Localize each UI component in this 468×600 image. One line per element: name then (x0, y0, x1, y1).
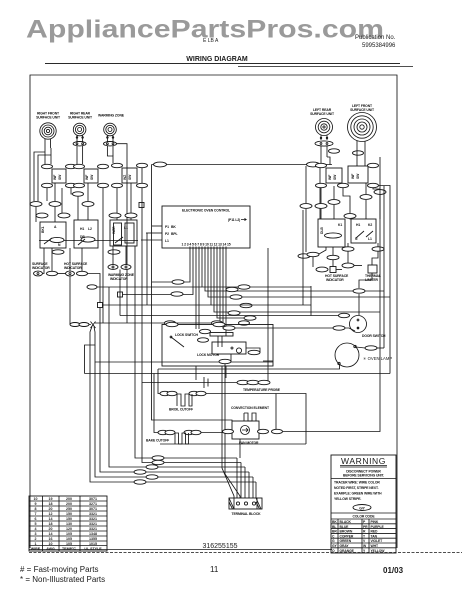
svg-text:1015: 1015 (89, 542, 97, 546)
svg-text:3321: 3321 (89, 512, 97, 516)
wire right bundle x390 (379, 186, 390, 374)
svg-text:✳ OVEN LAMP: ✳ OVEN LAMP (363, 356, 392, 361)
wire y444 horizontal (160, 443, 306, 445)
node oval 334-202 (328, 200, 340, 205)
node oval x303 low (298, 254, 310, 258)
junction crossing X (91, 322, 96, 329)
node oval S5 out (360, 195, 372, 200)
svg-text:105: 105 (66, 532, 72, 536)
wire coil3 to S3 (107, 146, 113, 163)
svg-text:6: 6 (35, 517, 37, 521)
wire thermal limiter to door switch (359, 273, 372, 288)
wire EOC drop y291 door feed (205, 248, 384, 291)
svg-text:SW: SW (90, 174, 94, 180)
wire EOC left pin P2 (146, 232, 162, 234)
lock box top edge ovals (166, 322, 178, 326)
svg-text:DOOR SWITCH: DOOR SWITCH (362, 334, 386, 338)
wire door bottom (349, 328, 355, 331)
wire EOC drop y305 (103, 248, 212, 305)
svg-text:2: 2 (35, 537, 37, 541)
svg-text:INDICATOR: INDICATOR (32, 266, 50, 270)
svg-text:PINK: PINK (371, 520, 379, 524)
wire S3 bottom to K3 (130, 183, 132, 220)
svg-text:SW: SW (356, 173, 360, 179)
svg-text:BAKE CUTOFF: BAKE CUTOFF (146, 439, 169, 443)
svg-text:SW: SW (58, 174, 62, 180)
svg-text:INF: INF (53, 175, 57, 180)
node oval j2 (79, 323, 89, 327)
svg-text:120: 120 (66, 527, 72, 531)
svg-text:WHT: WHT (371, 544, 379, 548)
svg-text:E LB A: E LB A (203, 38, 219, 44)
svg-text:Publication No.: Publication No. (355, 35, 396, 41)
warming zone coil (104, 123, 117, 141)
svg-text:18: 18 (49, 502, 53, 506)
wire EOC drop y318 (217, 248, 250, 318)
wire x147 vertical (146, 233, 148, 305)
svg-text:H1: H1 (80, 227, 84, 231)
svg-text:# = Fast-moving Parts: # = Fast-moving Parts (20, 565, 98, 574)
svg-text:K2: K2 (368, 223, 372, 227)
svg-text:BK: BK (171, 225, 176, 229)
svg-text:DLB: DLB (320, 227, 324, 234)
svg-text:FAN MOTOR: FAN MOTOR (239, 441, 259, 445)
wire oval to K1 top (54, 207, 56, 222)
right rear unit connector (73, 142, 86, 146)
svg-text:* = Non-Illustrated Parts: * = Non-Illustrated Parts (20, 575, 105, 584)
svg-text:GREEN: GREEN (340, 539, 352, 543)
svg-text:LOCK SWITCH: LOCK SWITCH (175, 333, 198, 337)
node oval between K4 K5 (344, 214, 356, 219)
wire node down (100, 308, 249, 473)
oven lamp circle (335, 343, 359, 367)
svg-text:18: 18 (49, 522, 53, 526)
svg-text:105: 105 (66, 542, 72, 546)
svg-text:14: 14 (49, 532, 53, 536)
wire coil2 to S2 (76, 146, 78, 164)
svg-text:BPL: BPL (171, 232, 178, 236)
wire y315 horizontal (120, 315, 350, 317)
lock lever bar (210, 333, 233, 337)
wire x152 vertical (152, 165, 233, 422)
surface indicator connectors (47, 271, 58, 275)
wire K5 bottom ovals (342, 247, 354, 251)
svg-text:CONVECTION ELEMENT: CONVECTION ELEMENT (231, 406, 270, 410)
svg-text:WIRING DIAGRAM: WIRING DIAGRAM (186, 56, 248, 63)
svg-text:SURFACE UNIT: SURFACE UNIT (36, 116, 61, 120)
wire door top (358, 294, 360, 315)
wire EOC drop y328 door bottom (223, 248, 349, 328)
svg-text:5: 5 (35, 522, 37, 526)
wire fan right up to broil row (275, 394, 277, 432)
svg-text:14: 14 (49, 517, 53, 521)
wire fan bottom drop (239, 439, 241, 458)
wire EOC drop y297 (208, 248, 390, 297)
wire indicator chain (337, 269, 343, 271)
svg-text:ELECTRONIC OVEN CONTROL: ELECTRONIC OVEN CONTROL (182, 209, 230, 213)
bottom rule dashed (29, 552, 462, 554)
svg-text:(P11 L2): (P11 L2) (228, 218, 240, 222)
wire long harness horizontal (152, 164, 333, 166)
wire thermal limiter feed (372, 252, 378, 266)
svg-text:L2: L2 (88, 227, 92, 231)
surface switch S2 (74, 164, 109, 187)
wire EOC drop to lock box (195, 248, 197, 329)
svg-text:INF: INF (328, 175, 332, 180)
svg-text:SW: SW (333, 174, 337, 180)
svg-text:YELLOW STRIPE.: YELLOW STRIPE. (334, 497, 361, 501)
warming zone indicator lamps (108, 265, 131, 270)
svg-text:250: 250 (66, 507, 72, 511)
wire between ovals lights (58, 273, 66, 275)
svg-text:BK: BK (332, 520, 337, 524)
svg-text:PR: PR (363, 525, 368, 529)
svg-text:L1: L1 (124, 226, 128, 230)
svg-text:SURFACE UNIT: SURFACE UNIT (310, 112, 335, 116)
svg-text:20: 20 (49, 527, 53, 531)
wire hot surface right (88, 274, 101, 304)
wire EOC drop 2 left (123, 248, 194, 295)
node oval on 282 (172, 280, 184, 284)
svg-text:P2: P2 (165, 232, 169, 236)
svg-text:01/03: 01/03 (383, 566, 404, 575)
svg-text:GRAY: GRAY (340, 544, 350, 548)
node oval S4 out2 (300, 204, 312, 209)
svg-text:K1: K1 (338, 223, 342, 227)
bake element (175, 433, 189, 444)
svg-text:20: 20 (49, 507, 53, 511)
wire EOC left pin L1 (141, 239, 162, 241)
wire long mid horizontal y373 (85, 373, 391, 375)
svg-text:7: 7 (35, 512, 37, 516)
terminal block (229, 498, 262, 509)
svg-text:5995384996: 5995384996 (362, 43, 396, 49)
node oval S1 out (49, 202, 61, 207)
wire K4 bottom ovals (307, 252, 319, 256)
wire broil left feed (158, 369, 160, 394)
wire S3 left oval down to K3 (116, 188, 118, 220)
svg-text:3071: 3071 (89, 497, 97, 501)
wire coil1 to S1 right (50, 148, 52, 164)
svg-text:105: 105 (66, 537, 72, 541)
wire y287 left part (97, 286, 202, 288)
node oval left y287 (87, 285, 97, 289)
wire S1 bottom to oval (54, 183, 56, 201)
surface indicator lamp (34, 271, 43, 276)
svg-text:TRACER WIRE: WIRE COLOR: TRACER WIRE: WIRE COLOR (334, 481, 380, 485)
relay box K3 (110, 220, 137, 246)
wire S4 under oval (320, 146, 322, 165)
wire oval to K1 (35, 207, 37, 222)
wire junction hairpin to long line (85, 327, 96, 374)
wire lock motor drops to block (222, 366, 234, 498)
svg-text:INDICATOR: INDICATOR (110, 277, 128, 281)
wire S2 bottom to oval (87, 183, 89, 201)
wire x127 vertical (117, 144, 128, 323)
svg-text:LIMITER: LIMITER (365, 278, 379, 282)
wire EOC drop 1 left (152, 248, 190, 282)
svg-text:9: 9 (35, 502, 37, 506)
svg-text:316255155: 316255155 (202, 543, 237, 550)
wire EOC left pin P1 (152, 225, 162, 227)
svg-text:UL STYLE: UL STYLE (84, 547, 102, 551)
wire coil1 to S1 left (44, 148, 46, 164)
svg-text:DB: DB (80, 235, 85, 239)
svg-text:BR: BR (332, 530, 337, 534)
wire S1 right oval down (71, 188, 78, 194)
svg-text:1: 1 (35, 542, 37, 546)
node oval LF coil left terminal (353, 151, 364, 155)
electronic oven control box (162, 206, 250, 250)
secondary header line (238, 66, 413, 68)
wire S4 bottom to oval (320, 188, 322, 203)
svg-text:200: 200 (66, 497, 72, 501)
svg-text:H1: H1 (356, 223, 360, 227)
node oval door top (353, 289, 365, 293)
wire K2 to hot surface lamp (69, 248, 71, 271)
wire S1 left oval down (46, 188, 48, 201)
node square mid-left (98, 303, 103, 308)
svg-text:AWG: AWG (46, 547, 55, 551)
svg-text:3321: 3321 (89, 527, 97, 531)
wire K1 bottom to surface indicator (43, 248, 45, 274)
svg-text:3271: 3271 (89, 502, 97, 506)
diagram frame (30, 75, 397, 548)
broil element (177, 394, 192, 406)
svg-text:TEMP°C: TEMP°C (62, 547, 76, 551)
wire door feed right (383, 291, 385, 348)
lock assembly box (162, 325, 273, 367)
wire lamp row to junction (70, 324, 91, 326)
left rear surface unit coil (316, 119, 333, 141)
wire K3 to WZ lamps (112, 246, 114, 265)
node oval on h164 right (307, 162, 320, 167)
surface switch S5 (338, 163, 379, 187)
svg-text:L1: L1 (368, 237, 372, 241)
node oval S2 out (82, 202, 94, 207)
svg-text:19: 19 (49, 497, 53, 501)
wire WZ lamp down (119, 270, 121, 316)
svg-text:130: 130 (66, 522, 72, 526)
node ovals below relay (52, 250, 64, 254)
G/Y tracer wire symbol (353, 505, 371, 511)
wire x303 vertical (302, 210, 304, 305)
wire to lr indicator (312, 257, 314, 267)
node ovals on y323 (165, 321, 176, 325)
wire oval to K2 top (87, 207, 89, 220)
wire lamp bottom long left (158, 365, 340, 370)
svg-text:P1: P1 (165, 225, 169, 229)
svg-text:3321: 3321 (89, 522, 97, 526)
node square on x142 (139, 203, 144, 208)
wire oval206 feeds (320, 209, 322, 219)
left front surface unit coil (348, 113, 377, 151)
svg-text:TAN: TAN (371, 534, 378, 538)
svg-text:BLUE: BLUE (340, 525, 350, 529)
wire oval to K2 (77, 196, 79, 220)
svg-text:3321: 3321 (89, 517, 97, 521)
surface switch S1 (42, 164, 77, 187)
svg-text:SURFACE UNIT: SURFACE UNIT (350, 108, 375, 112)
node oval door bottom (333, 326, 345, 330)
left rear unit connector (315, 141, 333, 146)
convection element symbol (244, 413, 256, 421)
wire EOC drop y323 left long (95, 248, 220, 323)
svg-text:BEFORE SERVICING UNIT.: BEFORE SERVICING UNIT. (343, 474, 384, 478)
node oval on 294 (171, 292, 183, 296)
node oval left pair (30, 202, 42, 207)
door switch circle (350, 316, 367, 333)
svg-text:1348: 1348 (89, 532, 97, 536)
wire S1 right lower (61, 188, 63, 213)
node oval lamp right (365, 346, 377, 350)
svg-text:BLACK: BLACK (340, 520, 352, 524)
wire junction down right (95, 345, 253, 477)
wire to indicator right oval (347, 252, 349, 264)
svg-text:INF: INF (351, 174, 355, 179)
surface switch S4 (316, 163, 343, 187)
wire junction down left (90, 327, 256, 483)
svg-text:SURFACE UNIT: SURFACE UNIT (68, 116, 93, 120)
wire long mid horizontal y362 (95, 361, 273, 363)
hot surface indicator lamp (66, 271, 75, 276)
wire x135 down (135, 246, 237, 458)
broil element connectors (160, 391, 170, 395)
svg-text:NOTED FIRST, STRIPE NEXT.: NOTED FIRST, STRIPE NEXT. (334, 486, 379, 490)
svg-text:16: 16 (49, 537, 53, 541)
svg-text:COLOR CODE: COLOR CODE (353, 515, 376, 519)
node oval LR coil side (329, 149, 340, 153)
connector ovals column (238, 285, 250, 289)
oven relay box K5 (351, 219, 376, 243)
thermal limiter box (368, 265, 377, 273)
relay row second ovals (36, 213, 48, 218)
funnel ovals (152, 456, 164, 460)
svg-text:200: 200 (66, 502, 72, 506)
lock switch inner ovals (200, 329, 211, 333)
wire EOC drop y312 (214, 248, 380, 312)
wire coil1 branch left2 (38, 155, 51, 201)
svg-text:SW: SW (128, 174, 132, 180)
wire coil1 branch left (34, 152, 45, 201)
oven relay box K4 (318, 219, 345, 247)
svg-text:3071: 3071 (89, 507, 97, 511)
wire lock box bottom drops (195, 366, 197, 380)
wire broil right to x306 (205, 394, 306, 445)
svg-text:8: 8 (35, 507, 37, 511)
bake element connectors (158, 430, 168, 434)
svg-text:11: 11 (210, 565, 219, 574)
svg-text:BROWN: BROWN (340, 530, 353, 534)
wire EOC drop right (267, 248, 269, 383)
bottom rule solid (29, 549, 332, 551)
lock motor (212, 342, 260, 364)
svg-text:10: 10 (34, 497, 38, 501)
relay box K1 (40, 222, 66, 248)
wire bake right to fan (201, 432, 224, 434)
svg-text:INDICATOR: INDICATOR (64, 266, 82, 270)
svg-text:150: 150 (66, 512, 72, 516)
wire x109 down (109, 287, 245, 467)
svg-text:INDICATOR: INDICATOR (326, 278, 344, 282)
svg-text:COPPER: COPPER (340, 534, 354, 538)
wire EOC drop y286 (202, 248, 311, 287)
svg-text:10: 10 (49, 542, 53, 546)
lock switch arm (171, 337, 184, 347)
title underline (45, 63, 400, 65)
wire S2 right oval down (102, 188, 104, 323)
svg-text:1 2 3 4 5 6 7 8 9 10 11 12 13: 1 2 3 4 5 6 7 8 9 10 11 12 13 14 15 (181, 243, 230, 247)
svg-text:TEMPERATURE PROBE: TEMPERATURE PROBE (243, 388, 281, 392)
wire relay row crossing (39, 240, 138, 242)
svg-text:BK1: BK1 (41, 226, 45, 233)
svg-text:L1: L1 (165, 239, 169, 243)
node oval S5 out2 (374, 190, 386, 195)
wire x141 down (142, 167, 241, 463)
svg-text:TERMINAL BLOCK: TERMINAL BLOCK (231, 512, 261, 516)
right rear surface unit coil (73, 123, 86, 141)
node oval S4 out (315, 204, 327, 209)
wire bake left feed (154, 374, 158, 433)
node square on x120 (118, 292, 123, 297)
svg-text:12: 12 (49, 512, 53, 516)
svg-text:WIRE: WIRE (31, 547, 41, 551)
wire y305 horizontal right part (211, 304, 311, 306)
svg-text:WARMING ZONE: WARMING ZONE (98, 114, 125, 118)
wire lock motor out (263, 360, 273, 362)
relay box K2 (74, 220, 98, 248)
wire coilLF to S5 (356, 150, 358, 166)
svg-text:WZR: WZR (112, 226, 116, 234)
warming zone connector (104, 142, 117, 146)
temperature probe symbol (142, 377, 270, 388)
node oval on h164 left (154, 162, 167, 167)
svg-text:INF: INF (85, 175, 89, 180)
wire right bundle x384 (383, 186, 385, 291)
svg-text:150: 150 (66, 517, 72, 521)
wire EOC drop lock motor (225, 248, 227, 336)
right front surface unit coil (40, 123, 56, 148)
node oval j1 (70, 323, 80, 327)
svg-text:EXAMPLE: GREEN WIRE WITH: EXAMPLE: GREEN WIRE WITH (334, 492, 382, 496)
wire K1 bottom to oval (51, 248, 53, 271)
funnel drops to terminal block (236, 458, 238, 498)
svg-text:BL: BL (332, 525, 336, 529)
svg-text:BROIL CUTOFF: BROIL CUTOFF (169, 408, 193, 412)
svg-text:1355: 1355 (89, 537, 97, 541)
wire x311 vertical (310, 286, 312, 316)
surface switch S3 (112, 163, 148, 187)
svg-text:4: 4 (35, 527, 37, 531)
wire gauge table (29, 496, 107, 551)
svg-text:G/Y: G/Y (359, 507, 365, 511)
svg-text:VIOLET: VIOLET (371, 539, 384, 543)
wire h164 down to K4 (319, 165, 321, 220)
convection fan box (223, 421, 283, 439)
node oval mid (73, 192, 84, 196)
wire right bundle x380 (283, 157, 380, 432)
warning box (331, 455, 396, 553)
svg-text:WZ: WZ (123, 175, 127, 180)
svg-text:3: 3 (35, 532, 37, 536)
svg-text:WARNING: WARNING (341, 456, 386, 466)
lr surface indicator connectors (316, 267, 328, 272)
svg-text:RED: RED (371, 530, 379, 534)
svg-text:PURPLE: PURPLE (371, 525, 385, 529)
wire surface lamp down (69, 276, 71, 325)
wire K2 bottom to oval (81, 248, 83, 271)
